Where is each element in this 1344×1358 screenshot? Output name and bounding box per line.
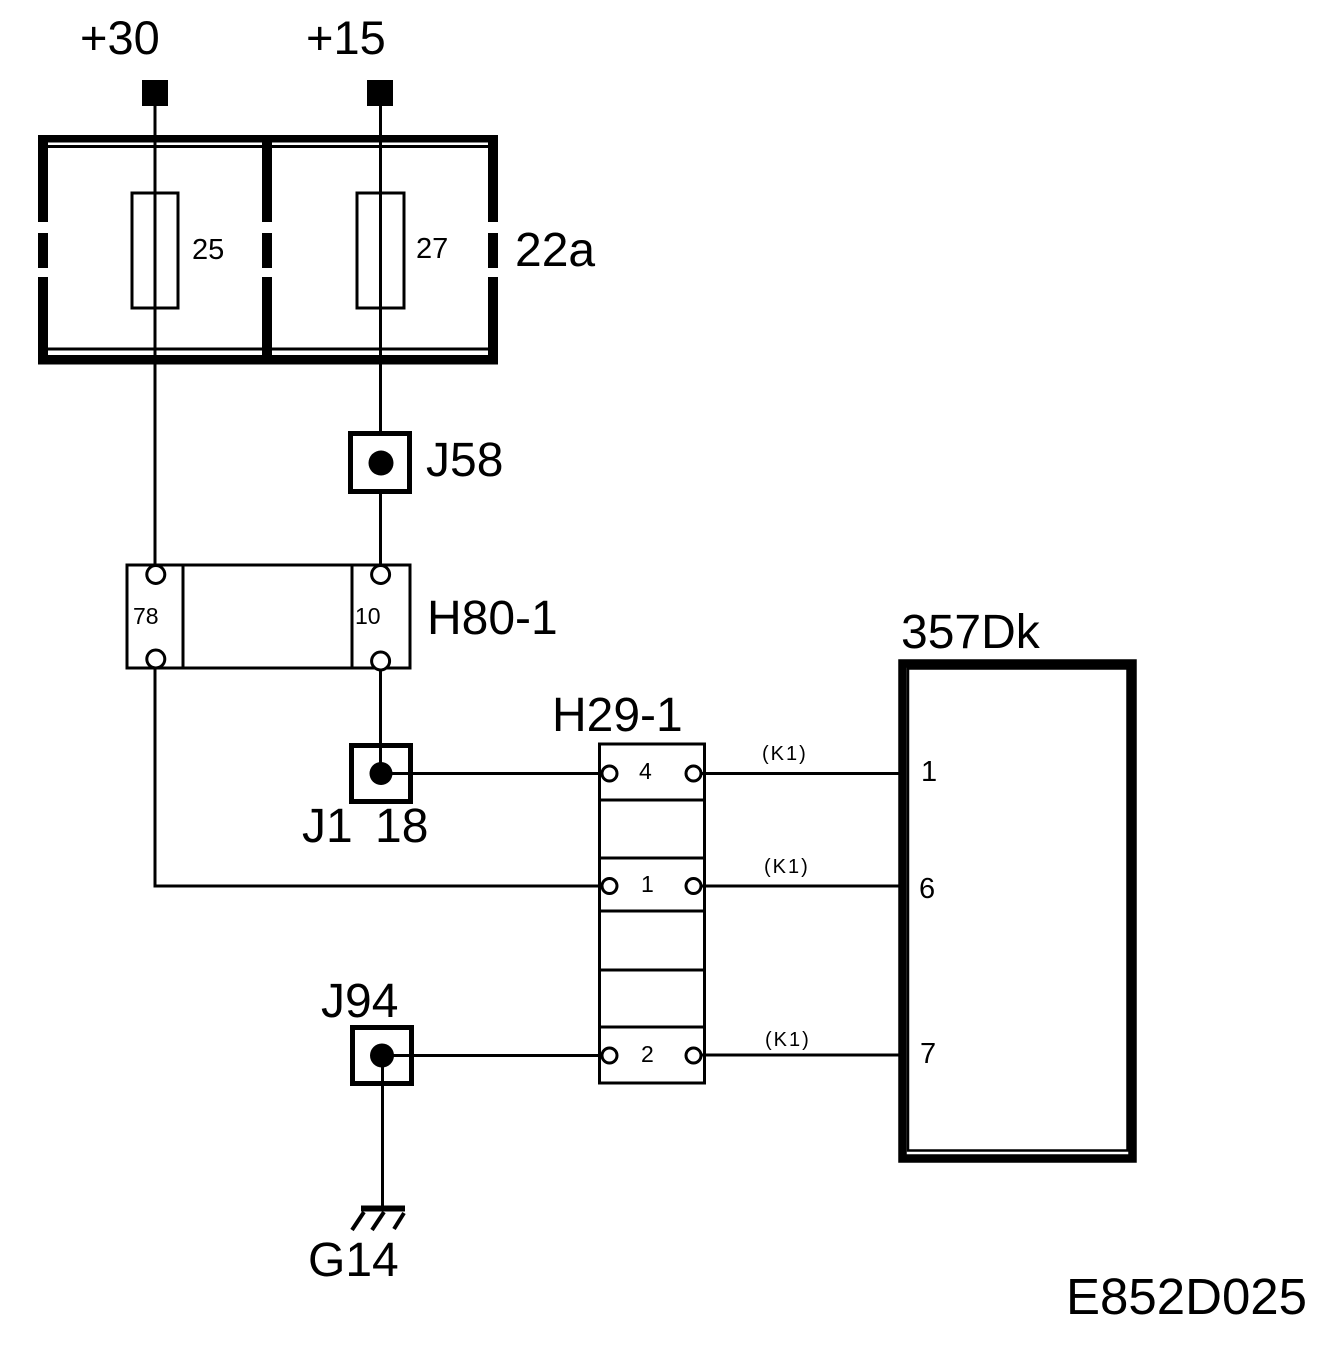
fuse holder 22a right dashed edge xyxy=(488,135,498,365)
joint J58 box xyxy=(351,434,410,492)
node +15 terminal square xyxy=(367,80,393,106)
svg-text:(K1): (K1) xyxy=(765,1029,811,1051)
svg-text:357Dk: 357Dk xyxy=(901,606,1041,659)
wire J1 to H29-1 pin 4 xyxy=(381,772,602,775)
svg-text:78: 78 xyxy=(133,603,159,629)
joint J1 dot xyxy=(370,762,393,785)
svg-text:1: 1 xyxy=(641,871,654,897)
wire +15 terminal to J58 xyxy=(379,105,382,433)
ground G14 hatch 2 xyxy=(372,1212,384,1230)
connector H29-1 pin 2 right circle xyxy=(686,1048,701,1063)
fuse holder 22a cell inner top line xyxy=(44,145,492,148)
joint J58 dot xyxy=(369,451,394,476)
svg-text:25: 25 xyxy=(192,234,224,266)
connector H29-1 pin 1 left circle xyxy=(602,879,617,894)
fuse 27 body xyxy=(357,193,404,308)
wire +30 terminal to H80-1 pin 78 top xyxy=(154,105,157,565)
ECU 357Dk body inner thin outline xyxy=(908,669,1128,1151)
node +30 terminal square xyxy=(142,80,168,106)
svg-text:27: 27 xyxy=(416,233,448,265)
connector H80-1 pin 10 bottom circle xyxy=(372,652,390,670)
fuse holder 22a thick bottom edge xyxy=(38,355,498,365)
svg-text:E852D025: E852D025 xyxy=(1066,1268,1307,1325)
wire H29-1 pin 4 to 357Dk pin 1 xyxy=(701,772,899,775)
joint J94 box xyxy=(353,1028,412,1084)
connector H29-1 body xyxy=(600,744,705,1083)
ground G14 hatch 3 xyxy=(394,1213,404,1229)
connector H80-1 pin 10 top circle xyxy=(372,566,390,584)
joint J94 dot xyxy=(370,1044,394,1068)
connector H80-1 pin 78 bottom circle xyxy=(147,650,165,668)
connector H80-1 right divider xyxy=(351,565,354,668)
wire H80-1 pin 78 to H29-1 pin 1 (horizontal) xyxy=(154,885,603,888)
wire J94 to H29-1 pin 2 xyxy=(382,1054,602,1057)
connector H29-1 divider 3 xyxy=(600,910,705,913)
fuse holder 22a middle dashed divider xyxy=(262,135,272,365)
fuse holder 22a cell inner bottom line xyxy=(44,348,492,351)
svg-text:7: 7 xyxy=(920,1038,936,1070)
ground G14 hatch 1 xyxy=(352,1212,364,1230)
svg-text:+30: +30 xyxy=(80,11,160,64)
connector H29-1 divider 2 xyxy=(600,857,705,860)
svg-text:4: 4 xyxy=(639,758,652,784)
wire H29-1 pin 1 to 357Dk pin 6 xyxy=(701,885,899,888)
fuse holder 22a left dashed edge xyxy=(38,135,48,365)
svg-text:6: 6 xyxy=(919,873,935,905)
connector H80-1 body xyxy=(127,565,410,668)
svg-text:18: 18 xyxy=(375,800,428,853)
joint J1 vertical wire stub xyxy=(379,745,382,774)
fuse holder 22a thick top edge xyxy=(38,135,498,143)
connector H29-1 pin 4 left circle xyxy=(602,766,617,781)
connector H29-1 pin 4 right circle xyxy=(686,766,701,781)
connector H80-1 left divider xyxy=(182,565,185,668)
svg-text:2: 2 xyxy=(641,1041,654,1067)
svg-text:J94: J94 xyxy=(321,975,398,1028)
ECU 357Dk body thick outline xyxy=(903,664,1133,1159)
svg-text:G14: G14 xyxy=(308,1234,399,1287)
joint J1 box xyxy=(352,746,411,802)
ground G14 bar xyxy=(361,1206,405,1212)
wire H29-1 pin 2 to 357Dk pin 7 xyxy=(701,1054,899,1057)
svg-text:+15: +15 xyxy=(306,11,386,64)
wire J94 to ground G14 xyxy=(381,1056,384,1207)
svg-text:H29-1: H29-1 xyxy=(552,689,683,742)
wire H80-1 pin 78 bottom to H29-1 pin 1 (vertical) xyxy=(154,668,157,888)
svg-text:J58: J58 xyxy=(426,434,503,487)
connector H29-1 divider 5 xyxy=(600,1026,705,1029)
fuse 25 body xyxy=(132,193,178,308)
svg-text:J1: J1 xyxy=(302,800,353,853)
connector H29-1 divider 1 xyxy=(600,799,705,802)
connector H29-1 pin 1 right circle xyxy=(686,879,701,894)
svg-text:(K1): (K1) xyxy=(764,856,810,878)
svg-text:1: 1 xyxy=(921,756,937,788)
wire H80-1 pin 10 bottom to J1 xyxy=(379,670,382,745)
svg-text:(K1): (K1) xyxy=(762,743,808,765)
svg-text:H80-1: H80-1 xyxy=(427,592,558,645)
connector H29-1 pin 2 left circle xyxy=(602,1048,617,1063)
connector H29-1 divider 4 xyxy=(600,969,705,972)
svg-text:22a: 22a xyxy=(515,224,595,277)
svg-text:10: 10 xyxy=(355,603,381,629)
connector H80-1 pin 78 top circle xyxy=(147,566,165,584)
wire J58 to H80-1 pin 10 top xyxy=(379,492,382,565)
